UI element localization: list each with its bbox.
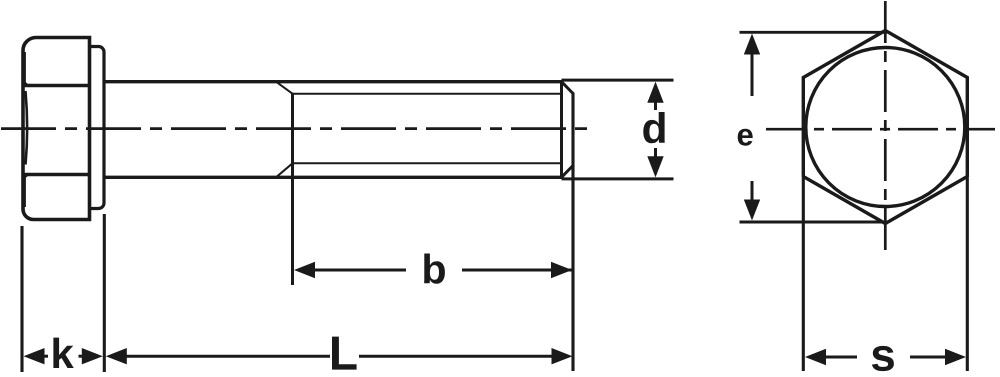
k dimension stub right xyxy=(79,355,84,358)
hexagon centerline horizontal xyxy=(766,128,995,131)
label s xyxy=(872,346,894,371)
k extension line left xyxy=(20,226,23,372)
e dimension arrow down xyxy=(744,200,760,221)
label e xyxy=(738,129,753,146)
head left edge thickening bottom facet xyxy=(24,176,26,207)
k dimension arrow right xyxy=(82,348,103,364)
L dimension arrow right xyxy=(552,348,573,364)
thread runout diagonal top xyxy=(276,82,293,94)
b extension line left xyxy=(291,94,294,285)
d extension line bottom xyxy=(562,177,674,180)
e dimension arrow up xyxy=(744,34,760,55)
end chamfer diagonal top xyxy=(562,82,574,94)
hexagon head end view xyxy=(803,31,967,224)
L dimension line left segment xyxy=(126,355,330,358)
end chamfer diagonal bottom xyxy=(562,166,574,178)
label b xyxy=(424,254,445,284)
bolt head outline xyxy=(23,38,90,220)
head facet line upper xyxy=(25,84,90,87)
head chamfer wedge lower xyxy=(23,174,35,184)
s dimension line left segment xyxy=(825,356,857,359)
thread runout diagonal bottom xyxy=(276,163,293,177)
b dimension arrow left xyxy=(294,262,315,278)
head left edge thickening top facet xyxy=(24,52,26,84)
s dimension arrow right xyxy=(945,349,966,365)
label d xyxy=(643,112,664,143)
d dimension arrow up xyxy=(647,82,663,103)
b dimension line right segment xyxy=(462,269,573,272)
b dimension arrow right xyxy=(551,262,572,278)
centerline side view xyxy=(1,127,591,130)
L dimension line right segment xyxy=(359,355,553,358)
hexagon centerline vertical xyxy=(884,1,887,253)
thread minor line top xyxy=(293,93,562,95)
k dimension arrow left xyxy=(24,348,45,364)
k dimension stub left xyxy=(44,355,49,358)
d dimension arrow down xyxy=(647,156,663,177)
thread minor line bottom xyxy=(293,162,562,164)
d dimension stem bottom xyxy=(654,148,657,158)
L dimension arrow left xyxy=(106,348,127,364)
b dimension line left segment xyxy=(313,269,406,272)
d dimension stem top xyxy=(654,100,657,110)
e dimension stem top xyxy=(751,52,754,96)
s extension line left xyxy=(802,178,805,371)
label L xyxy=(332,337,357,370)
d extension line top xyxy=(562,79,674,82)
head chamfer wedge upper xyxy=(23,77,35,87)
e extension line bottom xyxy=(740,221,888,224)
bolt end face / b-L extension line xyxy=(571,93,574,372)
s extension line right xyxy=(966,178,969,371)
s dimension arrow left xyxy=(805,349,826,365)
e extension line top xyxy=(740,31,888,34)
inscribed circle xyxy=(806,48,965,207)
head chamfer arc middle facet xyxy=(26,91,28,165)
washer face flange xyxy=(90,47,105,209)
e dimension stem bottom xyxy=(751,181,754,202)
s dimension line right segment xyxy=(910,356,947,359)
thread end line xyxy=(560,82,563,178)
label k xyxy=(53,338,73,368)
k-L extension line middle xyxy=(103,214,106,372)
shank top line xyxy=(104,80,562,83)
shank bottom line xyxy=(104,176,562,179)
head facet line lower xyxy=(25,173,90,176)
